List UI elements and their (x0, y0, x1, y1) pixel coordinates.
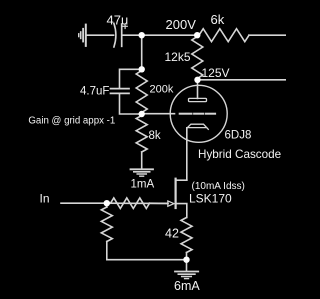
wire node D to tube grid (142, 113, 175, 115)
tube U1 cathode (187, 124, 208, 129)
svg-text:47u: 47u (107, 13, 129, 28)
resistor R7 42 (vertical) (181, 218, 192, 260)
capacitor C1 47u (polarized) (114, 23, 122, 47)
ground GND3 (bottom) (175, 272, 198, 279)
svg-text:125V: 125V (202, 66, 230, 80)
svg-text:12k5: 12k5 (165, 50, 191, 64)
resistor R3 200k (vertical) (136, 69, 147, 114)
wire node E down to plate (197, 80, 199, 99)
node D junction dot (139, 111, 145, 117)
node G junction dot (6mA) (183, 257, 189, 263)
Q1 gate arrow (168, 201, 174, 206)
svg-text:6DJ8: 6DJ8 (225, 130, 252, 142)
wire node E (125V) to right edge (198, 79, 287, 81)
resistor R4 8k (vertical) (136, 114, 147, 169)
Q1 drain lead (176, 179, 187, 181)
tube U1 plate (anode) (189, 98, 207, 101)
Q1 gate wire from node F (107, 202, 168, 204)
wire In to node F (61, 202, 107, 204)
wire GND1 to C1 (87, 34, 114, 36)
svg-text:Gain @ grid appx -1: Gain @ grid appx -1 (28, 116, 115, 127)
resistor R1 6k (horizontal) (197, 34, 199, 36)
svg-text:LSK170: LSK170 (189, 192, 232, 206)
transistor Q1 LSK170 channel (175, 179, 177, 208)
svg-text:6k: 6k (211, 12, 225, 27)
svg-text:In: In (40, 192, 50, 206)
node E junction dot (125V) (194, 77, 200, 83)
node C junction dot (139, 66, 145, 72)
resistor R6 (vertical, below node F) (101, 203, 112, 260)
tube U1 grid (dashes) (180, 113, 215, 115)
svg-text:1mA: 1mA (131, 179, 155, 191)
resistor R5 (horizontal, In) (107, 198, 168, 209)
wire R6 bottom to node G (107, 259, 187, 261)
svg-text:6mA: 6mA (174, 279, 200, 293)
wire node A down to node C (141, 35, 143, 69)
tube U1 6DJ8 envelope (170, 85, 227, 142)
ground GND1 (top-left, pointing left) (79, 25, 86, 46)
svg-text:4.7uF: 4.7uF (80, 86, 109, 98)
node B junction dot (194, 32, 200, 38)
plus sign of C1 (123, 24, 127, 28)
svg-text:200V: 200V (166, 17, 197, 32)
wire node G to GND3 (186, 260, 188, 271)
svg-text:200k: 200k (150, 84, 174, 96)
node F junction dot (In) (104, 200, 110, 206)
svg-text:(10mA Idss): (10mA Idss) (192, 181, 245, 192)
Q1 source lead (176, 204, 187, 218)
wire C1 to node A (122, 34, 142, 36)
wire node A to node B (142, 34, 198, 36)
wire cathode down to JFET drain (186, 128, 188, 180)
node A junction dot (139, 32, 145, 38)
capacitor C2 4.7uF (111, 89, 130, 94)
resistor R2 12k5 (vertical) (192, 35, 203, 80)
svg-text:8k: 8k (149, 130, 161, 142)
wire C2 bottom to node D (120, 94, 142, 114)
ground GND2 (below 8k) (131, 169, 154, 176)
svg-text:42: 42 (165, 227, 179, 241)
svg-text:Hybrid Cascode: Hybrid Cascode (198, 148, 281, 161)
wire node C left to C2 top (120, 69, 142, 88)
wire R1 to right edge (249, 34, 286, 36)
